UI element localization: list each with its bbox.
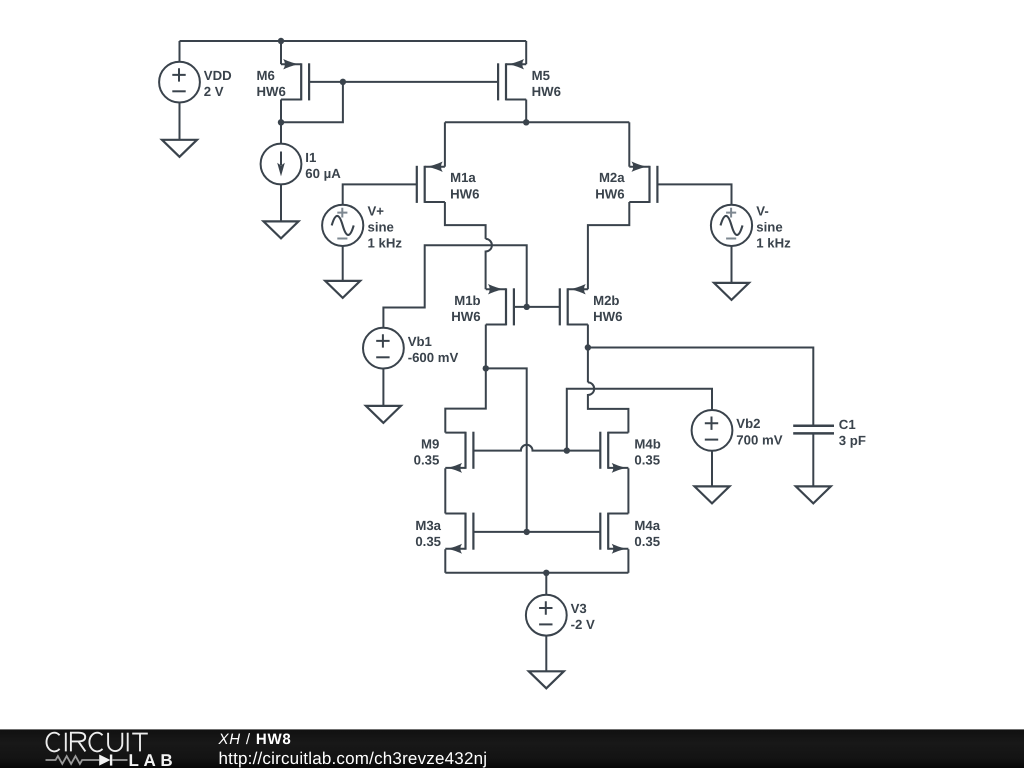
ground below Vb2: [695, 486, 730, 503]
svg-text:2 V: 2 V: [204, 84, 224, 99]
svg-text:HW6: HW6: [595, 186, 624, 201]
svg-text:sine: sine: [756, 219, 782, 234]
transistor M9 NMOS: [445, 432, 473, 473]
node top rail / M6 source junction: [278, 38, 284, 44]
svg-text:M2b: M2b: [593, 293, 619, 308]
svg-text:HW6: HW6: [451, 309, 480, 324]
wire Vb1 to ground: [382, 369, 384, 406]
current source I1 60 uA: [261, 144, 302, 185]
voltage source VDD 2 V: [159, 62, 200, 103]
wire M1b drain to M9 drain: [445, 368, 486, 432]
svg-text:M4b: M4b: [634, 437, 660, 452]
svg-text:M2a: M2a: [599, 170, 625, 185]
svg-text:http://circuitlab.com/ch3revze: http://circuitlab.com/ch3revze432nj: [219, 749, 488, 768]
wire gate M3a to M4a: [473, 531, 600, 533]
wire M2a drain to M2b source: [588, 202, 629, 289]
wire M1b drain stub: [485, 325, 487, 369]
voltage source V+ sine 1 kHz: [322, 205, 363, 246]
svg-text:700 mV: 700 mV: [736, 432, 782, 447]
svg-text:LAB: LAB: [129, 751, 178, 768]
wire M6 drain to I1: [280, 122, 282, 143]
transistor M2a PMOS: [629, 162, 657, 203]
wire bias Vb2 to M9 M4b gates: [567, 389, 712, 451]
voltage source Vb1 -600 mV: [363, 328, 404, 369]
svg-text:sine: sine: [368, 219, 394, 234]
wire VDD to ground: [179, 103, 181, 140]
svg-text:XH / HW8: XH / HW8: [218, 731, 292, 748]
wire M1a drain to M1b source: [445, 202, 486, 239]
wire I1 to ground: [280, 184, 282, 221]
wire M1a source stub: [444, 122, 446, 166]
ground below C1: [796, 486, 831, 503]
CircuitLab logo squiggle resistor diode: [46, 755, 128, 766]
ground below VDD: [162, 140, 197, 157]
transistor M4a NMOS: [600, 513, 628, 554]
wire V- to ground: [731, 246, 733, 283]
wire M5 source stub: [525, 41, 527, 64]
svg-text:M9: M9: [421, 437, 439, 452]
capacitor C1 3 pF: [793, 426, 834, 434]
svg-text:I1: I1: [305, 150, 316, 165]
svg-text:HW6: HW6: [593, 309, 622, 324]
svg-text:M6: M6: [257, 68, 275, 83]
svg-text:M1a: M1a: [450, 170, 476, 185]
node cascode gate junction: [524, 304, 530, 310]
svg-text:0.35: 0.35: [634, 534, 660, 549]
wire M4b source to M4a drain: [627, 468, 629, 513]
node gate wire junction: [340, 79, 346, 85]
svg-text:3 pF: 3 pF: [839, 433, 866, 448]
wire M6 source stub: [280, 41, 282, 64]
wire gate M1b to gate M2b: [514, 306, 560, 308]
svg-text:0.35: 0.35: [415, 534, 441, 549]
CircuitLab logo text CIRCUIT: [46, 733, 147, 752]
svg-text:VDD: VDD: [204, 68, 232, 83]
svg-text:M3a: M3a: [415, 518, 441, 533]
wire M2b drain down: [587, 348, 589, 383]
wire top rail VDD to M5: [180, 40, 527, 42]
wire V3 to ground: [545, 636, 547, 672]
wire gate M9 to M4b with hop: [473, 445, 600, 451]
transistor M4b NMOS: [600, 432, 628, 473]
svg-text:0.35: 0.35: [414, 453, 440, 468]
wire tail rail M1a-M2a sources: [445, 121, 629, 123]
node bottom rail / V3 junction: [543, 570, 549, 576]
wire M5 drain stub: [525, 100, 527, 123]
wire gate M6 to gate M5: [309, 81, 498, 83]
ground below V-: [714, 283, 749, 300]
wire M2a gate to V-: [657, 184, 731, 205]
voltage source V3 -2 V: [526, 595, 567, 636]
wire Vb1 to cascode gates: [383, 245, 526, 328]
wire C1 to ground: [812, 433, 814, 486]
wire M1b drain to long vertical: [486, 368, 527, 532]
transistor M6 PMOS: [281, 59, 309, 100]
wire output node to C1: [588, 348, 813, 425]
node M6 drain / I1 junction: [278, 119, 284, 125]
ground below Vb1: [366, 406, 401, 423]
svg-text:V+: V+: [368, 203, 385, 218]
node M2b drain output junction: [585, 344, 591, 350]
svg-text:1 kHz: 1 kHz: [368, 236, 403, 251]
svg-text:C1: C1: [839, 417, 856, 432]
transistor M5 PMOS: [498, 59, 526, 100]
node M1b drain junction: [483, 365, 489, 371]
footer bar background: [0, 729, 1024, 768]
transistor M1b PMOS: [486, 284, 514, 325]
wire M3a source stub: [444, 549, 446, 573]
wire M9 source to M3a drain: [444, 468, 446, 513]
ground below V+: [325, 281, 360, 298]
wire V+ to ground: [342, 246, 344, 281]
svg-text:Vb2: Vb2: [736, 416, 760, 431]
wire Vb2 to ground: [711, 451, 713, 487]
wire M2b drain stub: [587, 325, 589, 348]
node M3a M4a gate junction: [524, 529, 530, 535]
ground below V3: [529, 671, 564, 688]
svg-text:HW6: HW6: [257, 84, 286, 99]
svg-text:HW6: HW6: [532, 84, 561, 99]
wire hop output over bias wire: [588, 382, 629, 432]
transistor M2b PMOS: [560, 284, 588, 325]
svg-text:V3: V3: [571, 601, 587, 616]
voltage source V- sine 1 kHz: [711, 205, 752, 246]
svg-text:Vb1: Vb1: [408, 334, 432, 349]
svg-text:M4a: M4a: [634, 518, 660, 533]
svg-text:M1b: M1b: [454, 293, 480, 308]
wire M1a gate to V+: [343, 184, 417, 205]
svg-text:-600 mV: -600 mV: [408, 350, 459, 365]
ground below I1: [264, 221, 299, 238]
wire M2a source stub: [628, 122, 630, 166]
voltage source Vb2 700 mV: [692, 410, 733, 451]
wire bottom rail: [445, 572, 628, 574]
wire M6 diode connection drain to gate: [281, 82, 343, 122]
wire M6 drain stub: [280, 100, 282, 123]
transistor M1a PMOS: [417, 162, 445, 203]
wire M4a source stub: [627, 549, 629, 573]
node M9 M4b gate junction: [564, 447, 570, 453]
svg-text:HW6: HW6: [450, 186, 479, 201]
node M5 drain / tail junction: [523, 119, 529, 125]
svg-text:60 µA: 60 µA: [305, 166, 341, 181]
wire VDD top stub: [179, 41, 181, 62]
transistor M3a NMOS: [445, 513, 473, 554]
svg-text:M5: M5: [532, 68, 550, 83]
wire V3 top stub: [545, 573, 547, 595]
svg-text:0.35: 0.35: [634, 453, 660, 468]
svg-text:1 kHz: 1 kHz: [756, 236, 791, 251]
wire hop M1a-M1b over Vb1 wire: [486, 239, 492, 289]
svg-text:V-: V-: [756, 203, 768, 218]
svg-text:-2 V: -2 V: [571, 617, 595, 632]
